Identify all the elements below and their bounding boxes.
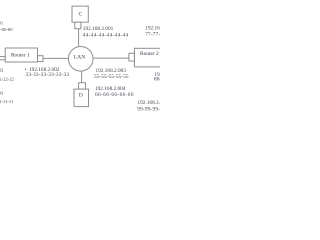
router R1 right port <box>38 56 44 62</box>
computer C <box>72 6 88 29</box>
router R1 <box>0 48 43 62</box>
svg-text:22-22-22-22-22-22: 22-22-22-22-22-22 <box>0 76 14 81</box>
svg-text:33-33-33-33-33-33: 33-33-33-33-33-33 <box>26 72 70 78</box>
svg-text:11-11-11-11-11-11: 11-11-11-11-11-11 <box>0 99 14 104</box>
wire LAN to R2 <box>93 57 129 59</box>
svg-text:77-77-77-77-77-77: 77-77-77-77-77-77 <box>145 32 160 38</box>
LAN hub <box>68 47 93 72</box>
wire C to LAN <box>78 29 80 47</box>
wire LAN to D <box>81 71 83 83</box>
svg-text:Router 2: Router 2 <box>140 51 159 57</box>
svg-text:00-00-00-00-00-00: 00-00-00-00-00-00 <box>0 27 13 32</box>
router R1 left port (cut off) <box>0 57 5 60</box>
router R2 top interface label (cut off at right) <box>145 25 189 37</box>
node at bottom right label (cut off at right) <box>137 100 181 113</box>
svg-text:99-99-99-99-99-99: 99-99-99-99-99-99 <box>137 107 160 113</box>
router R2 <box>129 48 179 67</box>
router R2 left port <box>129 53 135 61</box>
wire R1 to LAN <box>43 57 69 59</box>
node D address label (2.004) <box>95 86 134 98</box>
computer D <box>74 83 89 107</box>
svg-text:192.168.2.001: 192.168.2.001 <box>83 26 114 32</box>
LAN drop point label (2.003) <box>94 68 129 80</box>
router R1 right interface label <box>26 67 70 78</box>
svg-text:D: D <box>79 93 83 99</box>
svg-text:192.168.3.003: 192.168.3.003 <box>138 100 161 106</box>
router R2 lower interface label (cut off at right) <box>154 72 198 83</box>
router R1 left interface label (cut off) <box>0 67 14 81</box>
svg-text:44-44-44-44-44-44: 44-44-44-44-44-44 <box>83 32 129 38</box>
svg-text:Router 1: Router 1 <box>11 52 30 58</box>
node D bottom-left label (cut off) <box>0 91 14 104</box>
node C address label <box>83 26 129 38</box>
node A label (cut off at left edge, network 1 host) <box>0 20 13 32</box>
svg-text:192.168.3.001: 192.168.3.001 <box>145 25 160 31</box>
svg-text:55-55-55-55-55: 55-55-55-55-55 <box>94 74 129 80</box>
svg-text:66-66-66-66-66: 66-66-66-66-66 <box>95 92 134 98</box>
svg-text:LAN: LAN <box>74 55 85 61</box>
junction dot left of R1 right label <box>25 69 26 70</box>
svg-text:88-88-88-88-88-88: 88-88-88-88-88-88 <box>154 77 160 83</box>
svg-text:C: C <box>79 11 83 17</box>
